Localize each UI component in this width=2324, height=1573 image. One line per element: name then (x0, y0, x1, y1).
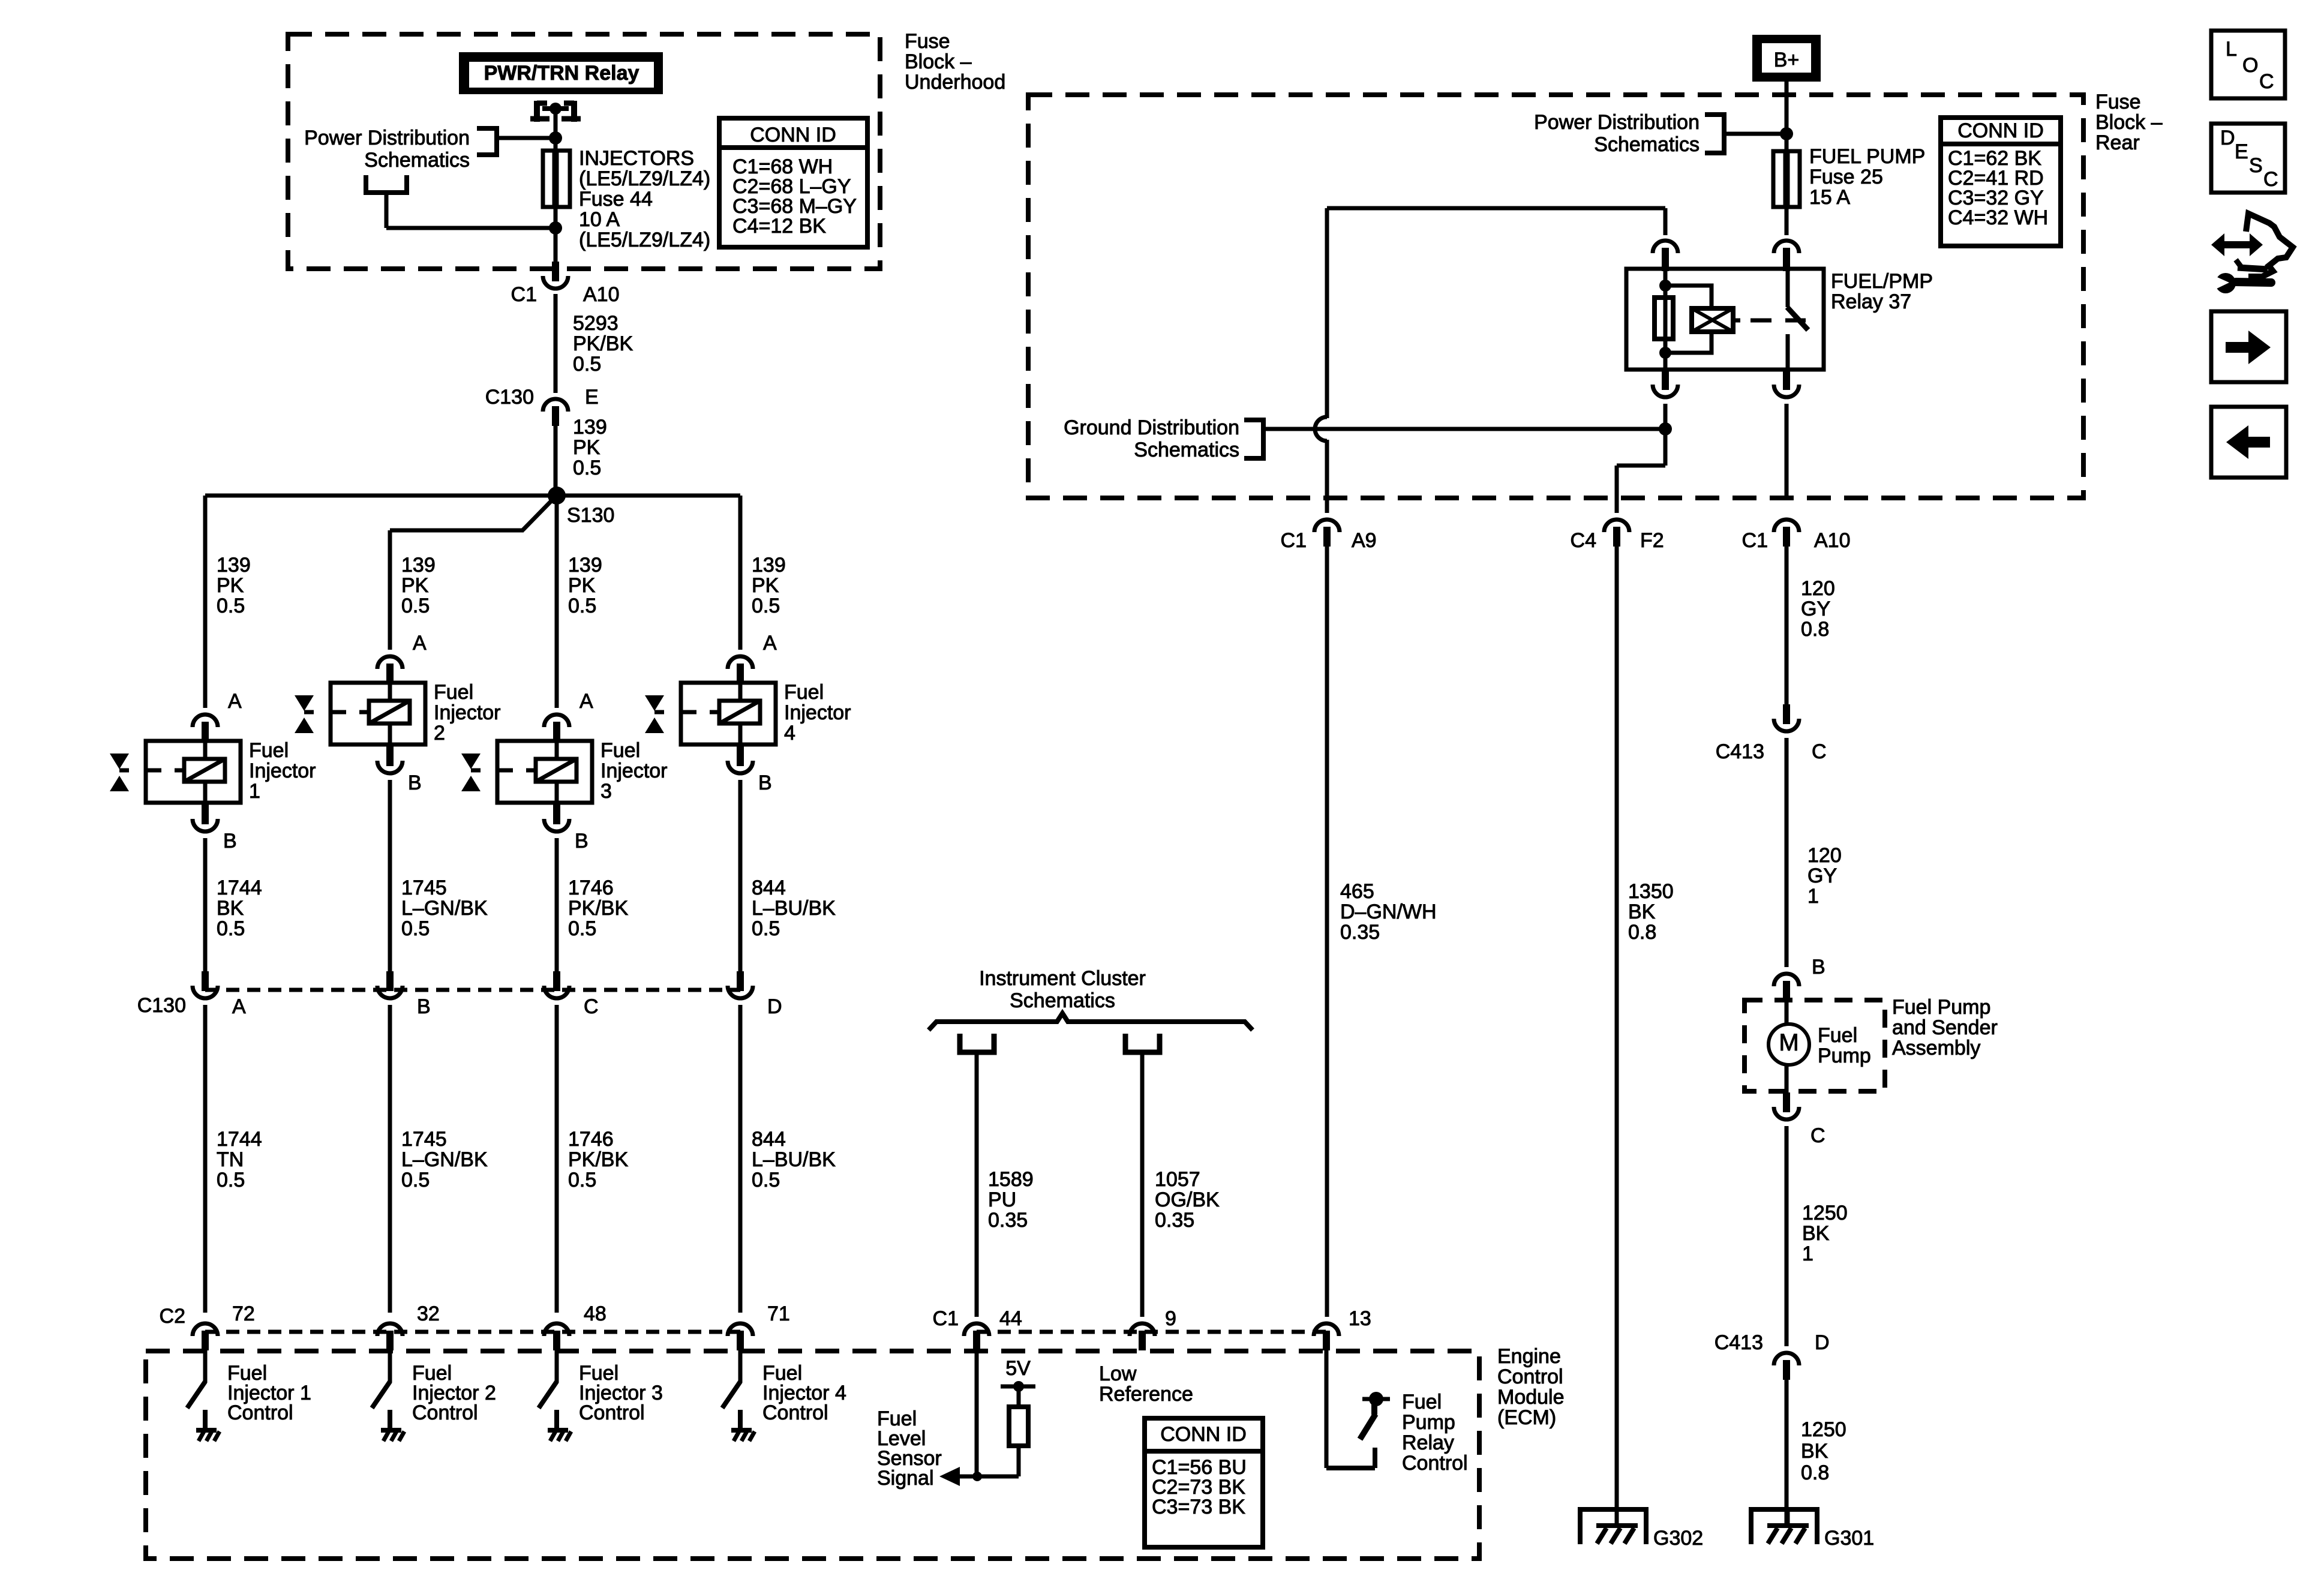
svg-text:13: 13 (1349, 1307, 1371, 1330)
svg-text:Reference: Reference (1099, 1383, 1193, 1406)
svg-text:S130: S130 (567, 504, 614, 527)
svg-text:139: 139 (568, 554, 602, 577)
svg-text:1250: 1250 (1801, 1418, 1846, 1441)
svg-text:Block –: Block – (905, 50, 972, 73)
svg-text:Fuel: Fuel (1818, 1024, 1857, 1047)
svg-text:Relay 37: Relay 37 (1831, 290, 1911, 313)
svg-text:Injector: Injector (434, 701, 501, 724)
svg-text:L–BU/BK: L–BU/BK (752, 897, 836, 920)
svg-text:D: D (767, 995, 782, 1018)
svg-text:PK/BK: PK/BK (568, 1148, 628, 1171)
svg-text:BK: BK (1801, 1440, 1828, 1463)
svg-text:E: E (585, 386, 599, 409)
svg-text:0.5: 0.5 (217, 595, 245, 617)
svg-text:C1: C1 (1281, 529, 1307, 552)
svg-text:PK: PK (568, 574, 596, 597)
svg-text:FUEL/PMP: FUEL/PMP (1831, 270, 1933, 293)
svg-text:(ECM): (ECM) (1497, 1406, 1556, 1429)
svg-text:C4=32 WH: C4=32 WH (1948, 206, 2048, 229)
svg-text:A9: A9 (1352, 529, 1377, 552)
svg-text:Injector: Injector (600, 760, 668, 782)
svg-text:A: A (580, 690, 593, 713)
svg-text:B: B (408, 772, 422, 794)
svg-text:L–GN/BK: L–GN/BK (401, 897, 488, 920)
svg-text:0.35: 0.35 (1155, 1209, 1194, 1232)
svg-text:1350: 1350 (1628, 880, 1674, 903)
svg-text:(LE5/LZ9/LZ4): (LE5/LZ9/LZ4) (579, 229, 710, 251)
svg-text:Rear: Rear (2095, 131, 2140, 154)
svg-text:L–BU/BK: L–BU/BK (752, 1148, 836, 1171)
svg-text:0.5: 0.5 (568, 1169, 596, 1191)
svg-text:PWR/TRN Relay: PWR/TRN Relay (484, 62, 639, 85)
svg-text:Fuel: Fuel (1402, 1391, 1442, 1413)
svg-text:0.5: 0.5 (217, 917, 245, 940)
svg-text:GY: GY (1801, 598, 1830, 620)
svg-text:Pump: Pump (1818, 1044, 1871, 1067)
svg-text:Injector: Injector (784, 701, 851, 724)
svg-text:C130: C130 (137, 994, 186, 1017)
svg-text:Assembly: Assembly (1892, 1037, 1980, 1059)
svg-text:C130: C130 (485, 386, 534, 409)
svg-text:D: D (2220, 127, 2235, 149)
svg-text:G301: G301 (1824, 1527, 1874, 1550)
svg-text:B: B (758, 772, 772, 794)
svg-text:C1: C1 (1742, 529, 1768, 552)
svg-text:32: 32 (417, 1302, 440, 1325)
svg-text:3: 3 (600, 780, 612, 803)
svg-text:844: 844 (752, 876, 786, 899)
svg-text:OG/BK: OG/BK (1155, 1188, 1220, 1211)
svg-text:Fuel: Fuel (249, 739, 289, 762)
svg-text:GY: GY (1807, 864, 1837, 887)
svg-text:(LE5/LZ9/LZ4): (LE5/LZ9/LZ4) (579, 167, 710, 190)
svg-text:F2: F2 (1640, 529, 1664, 552)
svg-text:CONN ID: CONN ID (750, 124, 836, 146)
svg-text:C1: C1 (933, 1307, 959, 1330)
svg-text:1746: 1746 (568, 876, 614, 899)
svg-text:C: C (584, 995, 599, 1018)
svg-text:48: 48 (584, 1302, 606, 1325)
svg-text:Control: Control (412, 1401, 478, 1424)
svg-text:1745: 1745 (401, 1128, 447, 1151)
svg-text:C3=73 BK: C3=73 BK (1152, 1496, 1245, 1518)
svg-text:Low: Low (1099, 1362, 1137, 1385)
svg-text:A: A (763, 632, 777, 655)
svg-text:Schematics: Schematics (1010, 989, 1115, 1012)
svg-text:2: 2 (434, 722, 445, 745)
svg-text:0.5: 0.5 (573, 457, 601, 479)
svg-text:0.35: 0.35 (988, 1209, 1028, 1232)
svg-text:Module: Module (1497, 1386, 1565, 1409)
svg-text:Power Distribution: Power Distribution (304, 127, 470, 149)
svg-text:5V: 5V (1005, 1357, 1031, 1380)
svg-text:139: 139 (573, 416, 607, 439)
svg-text:G302: G302 (1653, 1527, 1703, 1550)
svg-text:139: 139 (401, 554, 436, 577)
svg-text:44: 44 (999, 1307, 1022, 1330)
svg-text:S: S (2249, 154, 2263, 177)
svg-text:5293: 5293 (573, 312, 618, 335)
svg-text:Schematics: Schematics (1134, 439, 1239, 461)
svg-text:0.5: 0.5 (401, 1169, 430, 1191)
svg-text:BK: BK (1628, 900, 1656, 923)
svg-text:Schematics: Schematics (1594, 133, 1700, 156)
svg-text:0.8: 0.8 (1628, 921, 1656, 944)
svg-text:C: C (1810, 1124, 1825, 1147)
svg-text:BK: BK (1802, 1222, 1830, 1245)
svg-text:PK: PK (217, 574, 244, 597)
svg-text:C413: C413 (1715, 1331, 1763, 1354)
svg-text:0.5: 0.5 (752, 1169, 780, 1191)
svg-text:72: 72 (232, 1302, 255, 1325)
svg-text:B: B (1812, 956, 1825, 978)
svg-text:Fuse 44: Fuse 44 (579, 188, 653, 211)
svg-text:1745: 1745 (401, 876, 447, 899)
svg-text:C413: C413 (1716, 740, 1764, 763)
svg-text:1250: 1250 (1802, 1202, 1848, 1224)
svg-text:1744: 1744 (217, 876, 262, 899)
svg-text:Control: Control (1497, 1365, 1563, 1388)
svg-text:Fuse: Fuse (2095, 91, 2141, 113)
svg-text:0.5: 0.5 (752, 595, 780, 617)
svg-text:1057: 1057 (1155, 1168, 1200, 1191)
svg-text:Fuel Pump: Fuel Pump (1892, 996, 1990, 1019)
svg-text:CONN ID: CONN ID (1957, 119, 2044, 142)
svg-text:844: 844 (752, 1128, 786, 1151)
svg-text:O: O (2242, 54, 2258, 77)
svg-text:Fuel: Fuel (600, 739, 640, 762)
svg-text:1: 1 (1807, 885, 1819, 908)
svg-text:139: 139 (752, 554, 786, 577)
svg-text:Relay: Relay (1402, 1431, 1454, 1454)
svg-text:120: 120 (1807, 844, 1842, 867)
svg-text:0.35: 0.35 (1340, 921, 1380, 944)
svg-text:15 A: 15 A (1809, 186, 1850, 209)
svg-text:B: B (223, 830, 237, 852)
svg-text:0.5: 0.5 (568, 917, 596, 940)
svg-text:Control: Control (227, 1401, 293, 1424)
svg-text:D–GN/WH: D–GN/WH (1340, 900, 1437, 923)
svg-text:Instrument Cluster: Instrument Cluster (979, 967, 1146, 990)
svg-text:1746: 1746 (568, 1128, 614, 1151)
svg-text:B: B (575, 830, 588, 852)
svg-text:B+: B+ (1774, 49, 1800, 71)
svg-text:Fuse 25: Fuse 25 (1809, 166, 1883, 188)
svg-text:PK: PK (573, 436, 600, 459)
svg-text:465: 465 (1340, 880, 1374, 903)
svg-text:A10: A10 (583, 283, 620, 306)
svg-text:Engine: Engine (1497, 1345, 1561, 1368)
svg-text:Ground Distribution: Ground Distribution (1064, 416, 1239, 439)
svg-text:1: 1 (1802, 1242, 1813, 1265)
svg-text:PK/BK: PK/BK (573, 332, 633, 355)
svg-text:0.5: 0.5 (401, 917, 430, 940)
svg-text:Fuel: Fuel (434, 681, 473, 704)
svg-text:0.5: 0.5 (573, 353, 601, 376)
svg-text:Injector: Injector (249, 760, 316, 782)
svg-text:B: B (417, 995, 431, 1018)
svg-text:INJECTORS: INJECTORS (579, 147, 694, 170)
svg-text:C: C (1812, 740, 1827, 763)
svg-text:Control: Control (1402, 1452, 1468, 1475)
svg-text:0.8: 0.8 (1801, 618, 1829, 641)
svg-text:1589: 1589 (988, 1168, 1034, 1191)
svg-text:and Sender: and Sender (1892, 1016, 1998, 1039)
svg-text:Control: Control (579, 1401, 645, 1424)
svg-text:PK: PK (401, 574, 429, 597)
svg-text:0.5: 0.5 (217, 1169, 245, 1191)
svg-text:CONN ID: CONN ID (1160, 1423, 1247, 1446)
svg-text:Signal: Signal (877, 1467, 934, 1490)
svg-text:BK: BK (217, 897, 244, 920)
svg-text:0.5: 0.5 (401, 595, 430, 617)
svg-text:Pump: Pump (1402, 1411, 1455, 1434)
svg-text:C2: C2 (160, 1305, 185, 1328)
svg-text:C1: C1 (511, 283, 537, 306)
svg-text:Power Distribution: Power Distribution (1534, 111, 1700, 134)
svg-text:0.5: 0.5 (568, 595, 596, 617)
svg-text:0.5: 0.5 (752, 917, 780, 940)
svg-text:D: D (1815, 1331, 1830, 1354)
svg-text:C4: C4 (1571, 529, 1596, 552)
svg-text:L–GN/BK: L–GN/BK (401, 1148, 488, 1171)
svg-text:C4=12 BK: C4=12 BK (732, 215, 826, 238)
svg-text:PU: PU (988, 1188, 1016, 1211)
svg-text:10 A: 10 A (579, 208, 620, 231)
svg-text:TN: TN (217, 1148, 244, 1171)
svg-text:9: 9 (1165, 1307, 1176, 1330)
svg-text:A: A (413, 632, 427, 655)
svg-text:4: 4 (784, 722, 795, 745)
svg-text:C: C (2263, 168, 2278, 191)
svg-text:Block –: Block – (2095, 111, 2163, 134)
svg-text:A10: A10 (1814, 529, 1851, 552)
svg-text:C: C (2259, 70, 2274, 93)
svg-text:Fuel: Fuel (784, 681, 824, 704)
svg-text:A: A (228, 690, 242, 713)
svg-text:PK/BK: PK/BK (568, 897, 628, 920)
svg-text:L: L (2226, 38, 2237, 61)
svg-text:PK: PK (752, 574, 779, 597)
svg-text:E: E (2235, 140, 2248, 163)
svg-text:1: 1 (249, 780, 260, 803)
svg-text:M: M (1779, 1029, 1798, 1056)
svg-text:Fuse: Fuse (905, 30, 950, 53)
svg-text:A: A (232, 995, 246, 1018)
svg-text:139: 139 (217, 554, 251, 577)
svg-text:120: 120 (1801, 577, 1835, 600)
svg-text:Underhood: Underhood (905, 71, 1005, 94)
svg-text:Control: Control (762, 1401, 828, 1424)
svg-text:0.8: 0.8 (1801, 1461, 1829, 1484)
svg-text:1744: 1744 (217, 1128, 262, 1151)
svg-text:Schematics: Schematics (364, 149, 470, 172)
svg-text:FUEL PUMP: FUEL PUMP (1809, 145, 1925, 168)
svg-text:71: 71 (767, 1302, 790, 1325)
